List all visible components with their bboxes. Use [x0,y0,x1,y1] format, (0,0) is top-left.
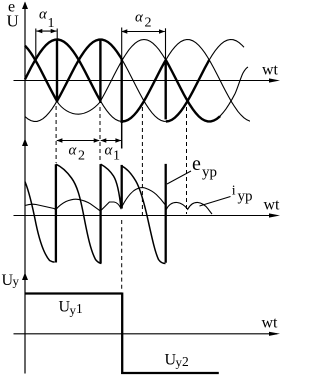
vertical axis (common ordinate line) [24,3,26,374]
equalizing emf arc 1 (x 55.9-101) [56,164,101,263]
dashed drop line x=121.7 (to control-voltage step) [121,220,123,292]
middle axis arrowhead [22,139,28,147]
sine phase B thin tail (x 166-250) [166,40,250,122]
svg-text:ур: ур [238,189,253,205]
equalizing emf arc 3 (x 121.7-165.5) [122,166,166,264]
sine phase C thin trough (x 121.9-166) [122,59,166,121]
equalizing current scallops after last spike [166,202,212,214]
dashed drop line x=56.1 [55,106,57,163]
equalizing emf spike 1 (x=55.9) [55,164,57,262]
svg-text:1: 1 [76,301,83,316]
bottom horizontal axis (wt) [14,333,278,335]
sine phase A thin tail (x 220-246) [220,67,248,116]
svg-text:U: U [7,12,19,31]
switching line x=121.7: tick to arrow row 2 [121,123,123,149]
svg-text:α: α [69,143,78,159]
top axis arrowhead [22,2,28,10]
svg-text:i: i [232,184,236,199]
sine phase B thick segment (x 122-166) [122,60,166,122]
equalizing current curve (thin) [25,188,165,211]
equalizing emf arc 2 (x 100.6-121) [101,164,121,208]
top horizontal axis (wt) [14,80,278,82]
svg-text:e: e [192,153,201,175]
svg-text:1: 1 [48,16,55,31]
sine phase C thick segment (x 57-121.9) [57,40,122,101]
alpha2 measure arrow (row 2) [57,140,100,142]
sine phase C thin tail (x 209-244) [209,40,244,61]
sine phase B thin trough (x 100.5-122) [101,101,123,122]
equalizing emf spike 2 (x=100.6) [99,164,101,263]
svg-text:α: α [135,10,144,26]
switching line x=121.7: thick bar [120,59,122,123]
control voltage step at x=122.2 [121,293,123,375]
switching line x=121.7: thin tick above [121,28,123,60]
bottom axis arrowhead [22,273,28,281]
middle horizontal axis (wt) [14,215,278,217]
sine phase A thick segment (group envelope after switch, x 166-220) [166,60,220,121]
svg-text:1: 1 [113,149,120,164]
equalizing emf spike 3 (x=121.7) [121,165,123,209]
control voltage Uy1 level line [25,292,122,294]
svg-text:2: 2 [182,354,189,369]
svg-text:wt: wt [262,62,279,79]
equalizing emf arc 0 (x 25-54.3) [25,182,55,263]
control voltage Uy2 level line [121,372,219,374]
dashed drop line x=100 [99,107,101,163]
alpha1 tick left (x=35.8) [35,29,37,60]
equalizing emf spike 4 (x=165.7) [165,164,167,263]
dashed drop line x=142.4 [141,107,143,215]
commutation bar at x=165.7 (crossing to trough) [164,60,166,119]
sine phase C thick segment (x 166-209) [166,60,209,122]
svg-text:2: 2 [145,15,152,30]
alpha1 measure arrow (row 2) [101,140,121,142]
dashed drop line x=186.5 [186,107,188,214]
sine phase A thick segment (group 1 envelope, x 25-57) [25,46,57,101]
alpha2 measure arrow (row 1) [122,31,165,33]
svg-text:wt: wt [262,315,279,332]
svg-text:у: у [13,274,20,289]
alpha2 tick right (x=165.5) [165,28,167,60]
alpha1 tick right (x=57.2 above peak) [56,29,58,40]
commutation bar at x=100.4 [99,40,101,104]
svg-text:ур: ур [202,165,217,181]
sine phase C thin head (x 25-57) [25,101,57,121]
commutation bar at x=57 (peak to lower crossing) [56,40,58,103]
sine phase A thin segment (x 57-166) [57,40,166,115]
svg-text:wt: wt [264,197,281,214]
svg-text:2: 2 [78,149,85,164]
sine phase B thick segment (x 25-100.5) [25,40,101,102]
alpha1 measure arrow (row 1) [37,30,57,32]
